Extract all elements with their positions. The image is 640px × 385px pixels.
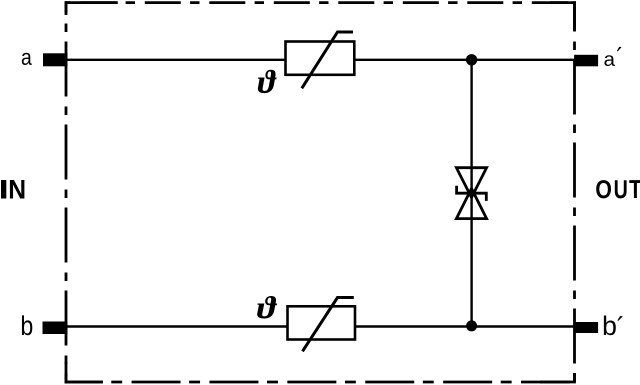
dash-dot enclosure border bottom (65, 381, 576, 384)
wire top-left segment (a to varistor) (66, 59, 286, 61)
terminal b' (574, 322, 598, 333)
dash-dot enclosure border right (573, 1, 576, 383)
thermally protected varistor RV2 body (288, 306, 356, 339)
thermally protected varistor RV1 body (286, 42, 355, 75)
theta label (thermal disconnect) bottom (257, 296, 277, 319)
suppressor diode D1 bottom triangle (456, 189, 486, 219)
junction node bottom (466, 320, 477, 331)
junction node top (466, 54, 477, 65)
suppressor diode D1 zener bar (457, 186, 487, 201)
border corner stub bottom-right (540, 373, 576, 383)
port label IN (1, 180, 24, 199)
wire bottom-right segment (varistor to b') (355, 325, 575, 327)
port label OUT (596, 180, 640, 198)
dash-dot enclosure border left (65, 1, 68, 383)
terminal label b' (604, 316, 623, 336)
wire top-right segment (varistor to a') (354, 59, 575, 61)
varistor RV2 diagonal stroke (303, 298, 354, 352)
terminal label b (22, 315, 32, 335)
border corner stub top-left (65, 1, 118, 15)
theta label (thermal disconnect) top (258, 70, 277, 93)
terminal label a (22, 53, 32, 65)
varistor RV1 diagonal stroke (302, 32, 353, 88)
terminal label a' (604, 47, 621, 66)
dash-dot enclosure border top (65, 1, 576, 4)
terminal a' (574, 55, 598, 67)
wire bottom-left segment (b to varistor) (66, 325, 288, 327)
wire vertical shunt branch (470, 60, 472, 327)
terminal b (43, 322, 68, 335)
border corner stub top-right (550, 1, 576, 31)
suppressor diode D1 top triangle (456, 168, 486, 198)
border corner stub bottom-left (65, 362, 103, 383)
terminal a (43, 53, 68, 66)
